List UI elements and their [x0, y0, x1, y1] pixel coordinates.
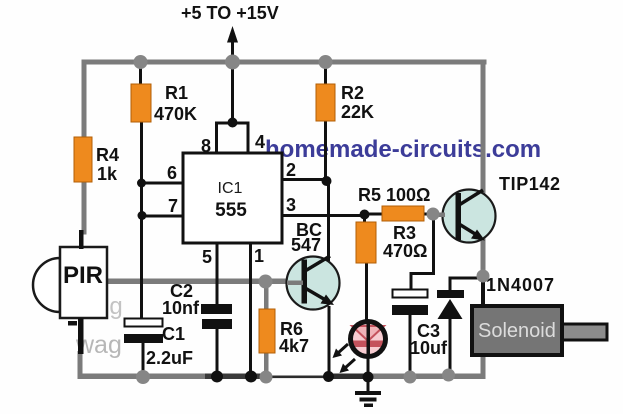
node C2-ground rail [211, 371, 223, 383]
node C3-ground rail [404, 371, 417, 384]
node LED-ground [363, 372, 374, 383]
resistor R2 [316, 84, 335, 121]
PIR sensor dome [33, 258, 60, 312]
svg-text:Solenoid: Solenoid [478, 320, 556, 342]
PIR top pin [79, 230, 84, 249]
transistor BC547 symbol [302, 260, 308, 304]
capacitor C3 [393, 290, 428, 298]
svg-text:2.2uF: 2.2uF [146, 348, 193, 368]
svg-text:C1: C1 [162, 324, 185, 344]
node TIP142 emitter junction [477, 270, 490, 283]
wire pin2 junction to BC547 collector [327, 179, 330, 261]
svg-text:7: 7 [168, 196, 178, 216]
wire pin7 line [141, 215, 185, 218]
node pin3-R5-R3 [360, 210, 370, 220]
wire C3 bottom lead [409, 315, 412, 377]
svg-text:R2: R2 [341, 83, 364, 103]
node R5-TIP142 base [427, 208, 440, 221]
node PIR-R6 [259, 275, 273, 289]
svg-text:3: 3 [286, 195, 296, 215]
capacitor C1 [125, 319, 163, 327]
solenoid body [472, 306, 562, 355]
wire R2 bottom lead [324, 121, 327, 181]
wire bottom rail gray right segment [369, 374, 486, 380]
wire supply stem [231, 40, 234, 123]
svg-text:5: 5 [202, 247, 212, 267]
wire R5 left lead [364, 213, 384, 216]
LED D2 [351, 322, 386, 357]
wire bottom rail black segment BC547-LED [326, 374, 371, 380]
wire PIR output to BC547 base [105, 279, 302, 285]
wire R5 right lead [422, 213, 434, 216]
svg-text:1N4007: 1N4007 [486, 275, 555, 295]
node BC547 emitter-ground rail [323, 371, 334, 382]
wire bottom-left below PIR [78, 351, 83, 378]
svg-text:8: 8 [201, 136, 211, 156]
wire pin6 line [141, 182, 185, 185]
svg-text:homemade-circuits.com: homemade-circuits.com [265, 136, 541, 163]
wire R1 bottom lead down to C1 [140, 121, 143, 320]
svg-text:1k: 1k [97, 164, 118, 184]
svg-text:R3: R3 [393, 223, 416, 243]
wire TIP142 base stub [433, 213, 445, 218]
wire R6 top lead [264, 282, 269, 312]
LED arrow 2 [345, 359, 355, 368]
solenoid plunger [562, 324, 607, 340]
node supply-arrow [225, 55, 240, 70]
svg-text:555: 555 [215, 200, 247, 221]
wire pin8-pin4 loop [217, 123, 249, 153]
PIR sensor box [60, 247, 107, 318]
wire R3 bottom to LED [365, 261, 368, 323]
PIR bottom pin [78, 318, 84, 354]
svg-text:10uf: 10uf [410, 338, 448, 358]
svg-text:4: 4 [255, 132, 265, 152]
wire diode top link [450, 278, 482, 293]
resistor R4 [74, 137, 92, 182]
op IC1 555 timer box [183, 153, 282, 243]
ground symbol [367, 377, 370, 393]
node diode-ground rail [442, 369, 455, 382]
node supply-R2 [319, 55, 333, 69]
svg-text:470K: 470K [154, 104, 197, 124]
capacitor C2 [201, 304, 232, 314]
resistor R3 [356, 222, 376, 263]
transistor TIP142 symbol [456, 193, 462, 240]
svg-text:6: 6 [167, 163, 177, 183]
wire R3 top stub [363, 215, 366, 224]
LED arrow 1 [338, 344, 348, 353]
wire C3 top link [411, 214, 434, 291]
svg-text:R4: R4 [96, 145, 119, 165]
wire diode bottom lead [449, 318, 452, 375]
wire C2 bottom lead [216, 327, 219, 377]
svg-text:470Ω: 470Ω [383, 241, 427, 261]
wire R1 top lead [139, 62, 142, 85]
svg-text:R1: R1 [165, 83, 188, 103]
svg-text:547: 547 [291, 235, 321, 255]
svg-text:PIR: PIR [63, 262, 103, 289]
svg-text:IC1: IC1 [218, 180, 243, 197]
wire BC547 emitter to ground rail [328, 306, 331, 377]
wire LED bottom lead [367, 322, 370, 377]
wire TIP142 emitter to junction [481, 236, 486, 278]
svg-text:10nf: 10nf [162, 298, 200, 318]
wire left rail [82, 60, 87, 235]
svg-text:2: 2 [286, 160, 296, 180]
svg-text:22K: 22K [341, 102, 374, 122]
wire pin1 lead to ground rail [249, 243, 252, 377]
wire R2 top lead [324, 62, 327, 85]
wire R6 bottom lead [264, 351, 269, 377]
transistor Q2 TIP142 body [443, 190, 496, 243]
node pin1-ground rail [245, 371, 257, 383]
wire pin5 lead [216, 243, 219, 306]
wire pin2 line [282, 178, 327, 181]
node pin2-R2 [322, 176, 332, 186]
svg-text:1: 1 [254, 246, 264, 266]
node loop-supply [228, 118, 238, 128]
supply arrowhead [227, 26, 238, 43]
svg-text:R5 100Ω: R5 100Ω [358, 185, 430, 205]
PIR minus sign [68, 321, 77, 326]
wire solenoid top lead [481, 276, 485, 306]
wire bottom rail gray left segment [78, 374, 208, 380]
node pin6 [137, 179, 146, 188]
svg-text:TIP142: TIP142 [499, 174, 561, 194]
node C1-ground rail [136, 370, 150, 384]
resistor R6 [259, 309, 275, 353]
wire bottom rail thin black segment R6-BC547 [266, 376, 330, 379]
node pin7 [138, 211, 147, 220]
node supply-R1 [134, 55, 148, 69]
node R6-ground rail [260, 371, 273, 384]
wire right rail (to TIP142 collector) [481, 60, 486, 194]
wire top rail [82, 60, 487, 65]
svg-text:+5 TO +15V: +5 TO +15V [181, 3, 279, 23]
resistor R5 [382, 206, 424, 221]
svg-text:4k7: 4k7 [279, 336, 309, 356]
wire pin3 line [282, 214, 366, 217]
wire solenoid bottom lead [481, 355, 486, 377]
transistor Q1 BC547 body [287, 257, 340, 310]
diode D1 1N4007 [437, 290, 464, 298]
resistor R1 [131, 84, 151, 122]
wire bottom rail dark segment C2-R6 [205, 374, 268, 380]
